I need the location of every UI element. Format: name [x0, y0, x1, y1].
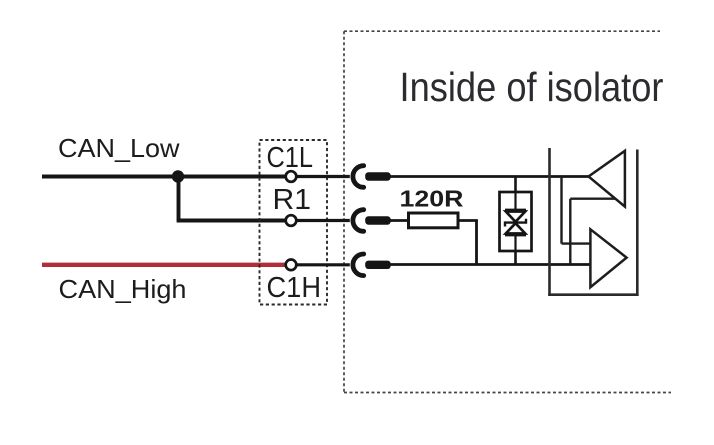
- svg-text:R1: R1: [273, 184, 312, 216]
- wire connector J2 to resistor: [389, 219, 409, 222]
- wire row3 inside isolator: [389, 263, 592, 266]
- receiver buffer triangle (points left): [589, 151, 625, 207]
- wire branch vertical from junction: [177, 177, 181, 221]
- connector pin-block dashed box: [260, 140, 328, 305]
- svg-text:C1L: C1L: [267, 142, 314, 174]
- TVS diode box: [500, 192, 532, 251]
- wire row1 inside isolator: [389, 175, 589, 178]
- wire pin R1 to connector J2: [297, 219, 350, 222]
- wire H2: to receiver lower edge: [570, 197, 615, 199]
- wire pin C1L to connector J1: [297, 175, 350, 178]
- wire CAN_Low main: [42, 175, 286, 179]
- wire CAN_High (red): [42, 263, 286, 267]
- wire A: row1 drop inside box: [560, 177, 562, 244]
- svg-text:120R: 120R: [400, 185, 464, 211]
- connector J2 (R1 row): [353, 210, 391, 232]
- resistor 120R body: [409, 213, 459, 228]
- svg-text:C1H: C1H: [267, 272, 322, 304]
- pin C1H circle: [286, 260, 297, 271]
- wire H1: to driver upper input: [562, 242, 591, 244]
- svg-text:CAN_High: CAN_High: [59, 274, 187, 304]
- svg-text:CAN_Low: CAN_Low: [58, 133, 180, 163]
- wire resistor right lead: [458, 219, 478, 222]
- connector J1 (CAN_Low row): [353, 166, 391, 188]
- transceiver box: [548, 148, 638, 296]
- pin R1 circle: [286, 215, 297, 226]
- wire B: vertical tie: [569, 199, 571, 265]
- svg-text:Inside of isolator: Inside of isolator: [400, 64, 664, 110]
- wire resistor drop to CAN_High row: [475, 221, 478, 265]
- wire branch horizontal to pin R1: [177, 219, 286, 223]
- driver buffer triangle (points right): [590, 229, 626, 287]
- pin C1L circle: [286, 171, 297, 182]
- TVS diode leads: [514, 177, 517, 194]
- isolator boundary dashed box: [344, 31, 671, 392]
- connector J3 (CAN_High row): [353, 254, 391, 276]
- TVS diode symbol: [505, 192, 526, 251]
- node junction on CAN_Low: [172, 170, 184, 182]
- wire pin C1H to connector J3: [297, 263, 350, 266]
